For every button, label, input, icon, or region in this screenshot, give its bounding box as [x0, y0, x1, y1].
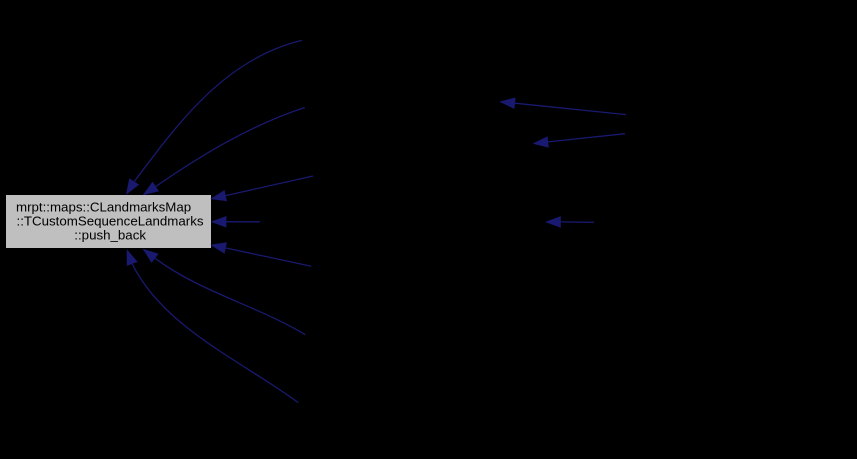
- svg-text:::TCustomSequenceLandmarks: ::TCustomSequenceLandmarks: [17, 214, 204, 229]
- edge R2 (right cluster, lower arrow): [533, 134, 626, 148]
- edge R1 (right cluster, upper arrow): [499, 97, 626, 114]
- edge F (caller 6, bottom inner curve): [143, 249, 306, 335]
- svg-text:mrpt::maps::CLandmarksMap: mrpt::maps::CLandmarksMap: [16, 200, 191, 215]
- edge C (caller 3, to top-right corner): [210, 176, 313, 201]
- edge G (caller 7, bottom outer curve): [127, 249, 299, 403]
- edge E (caller 4, horizontal into right edge): [211, 216, 260, 228]
- edge D (caller 5, to bottom-right corner): [210, 242, 311, 266]
- node box: mrpt::maps::CLandmarksMap::TCustomSequenceLandmarks::push_back: [6, 195, 211, 248]
- edge A (caller 1, top outer curve): [126, 40, 302, 195]
- svg-text:::push_back: ::push_back: [74, 227, 146, 242]
- edge B (caller 2, top inner curve): [143, 108, 305, 196]
- edge R3 (right middle short horizontal arrow): [545, 216, 594, 228]
